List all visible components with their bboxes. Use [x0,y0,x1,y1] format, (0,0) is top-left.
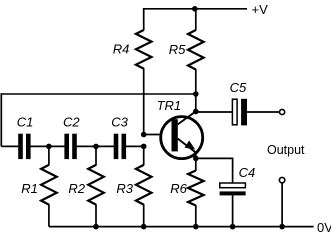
C5 value label [230,80,247,95]
R1 value label [21,181,38,196]
R3 value label [116,181,133,196]
wire C3 to base node [126,145,144,147]
capacitor C1 [18,134,30,159]
resistor R6 [188,171,204,206]
R6 value label [170,181,187,196]
wire R5 bottom lead to collector bus [195,69,197,112]
node ground R3 [141,224,147,230]
node base junction upper [141,132,147,138]
node output terminal lower [279,177,284,182]
wire feedback line collector to C1 [1,93,196,95]
wire emitter to C4 branch [196,157,233,159]
wire R2 bottom lead [95,204,97,226]
capacitor C2 [64,134,76,159]
wire R3 top lead [143,146,145,165]
wire R1 bottom lead to ground rail [48,204,50,226]
resistor R1 [41,165,57,205]
wire R4 bottom lead to base node [143,68,145,134]
C2 value label [63,115,80,130]
wire collector stub [195,152,197,158]
wire base lead [144,134,172,136]
svg-text:C1: C1 [17,115,34,130]
svg-text:R6: R6 [170,181,187,196]
svg-text:TR1: TR1 [157,98,182,113]
node ground C4 [230,224,236,230]
wire feedback left edge down [0,93,2,146]
capacitor C5 polarized [232,99,247,126]
svg-text:R1: R1 [21,181,38,196]
TR1 label [157,98,182,113]
C4 value label [239,165,256,180]
node ground output terminal [279,224,285,230]
resistor R4 [136,30,152,69]
wire R4 top lead [143,8,145,31]
wire C4 bottom lead [232,195,234,226]
wire R6 bottom lead [195,205,197,227]
node C1/R1 junction [46,144,52,150]
wire C5 to output terminal [247,111,279,113]
node collector / C5 junction [193,109,199,115]
resistor R5 [188,30,204,70]
R4 value label [113,42,130,57]
svg-text:R2: R2 [68,181,85,196]
R5 value label [169,42,186,57]
node C2/R2 junction [93,144,99,150]
wire bottom ground rail [49,226,314,228]
svg-text:C5: C5 [230,80,247,95]
R2 value label [68,181,85,196]
svg-text:R5: R5 [169,42,186,57]
svg-text:R4: R4 [113,42,130,57]
svg-text:+V: +V [252,2,269,17]
svg-text:R3: R3 [116,181,133,196]
svg-text:C2: C2 [63,115,80,130]
svg-text:C3: C3 [111,115,128,130]
C3 value label [111,115,128,130]
wire C2 to C3 [76,145,114,147]
wire top supply rail [144,8,247,10]
wire C4 top lead [232,158,234,183]
wire C5 lead from collector [196,111,233,113]
svg-text:0V: 0V [317,220,331,235]
resistor R2 [88,165,104,205]
node feedback junction [193,91,199,97]
capacitor C4 polarized [220,183,246,195]
+V label [252,2,269,17]
wire R1 top lead [48,146,50,165]
C1 value label [17,115,34,130]
node emitter junction [193,156,199,162]
0V label [317,220,331,235]
svg-text:Output: Output [267,143,305,157]
node junction top rail / R5 [192,6,198,12]
svg-text:C4: C4 [239,165,256,180]
wire R3 bottom lead [143,204,145,226]
resistor R3 [136,165,152,205]
node output terminal upper [280,109,285,114]
Output label [267,143,305,157]
wire R5 top lead [195,8,197,31]
node ground R2 [93,224,99,230]
wire lower terminal to ground rail [281,183,283,226]
wire R2 top lead [95,146,97,165]
wire C1 input lead [1,145,19,147]
transistor TR1 [161,111,203,158]
wire R6 top lead [195,158,197,171]
wire C1 to C2 [30,145,65,147]
capacitor C3 [114,134,126,159]
node ground R6 [193,224,199,230]
node C3/R3/base junction lower [141,144,147,150]
